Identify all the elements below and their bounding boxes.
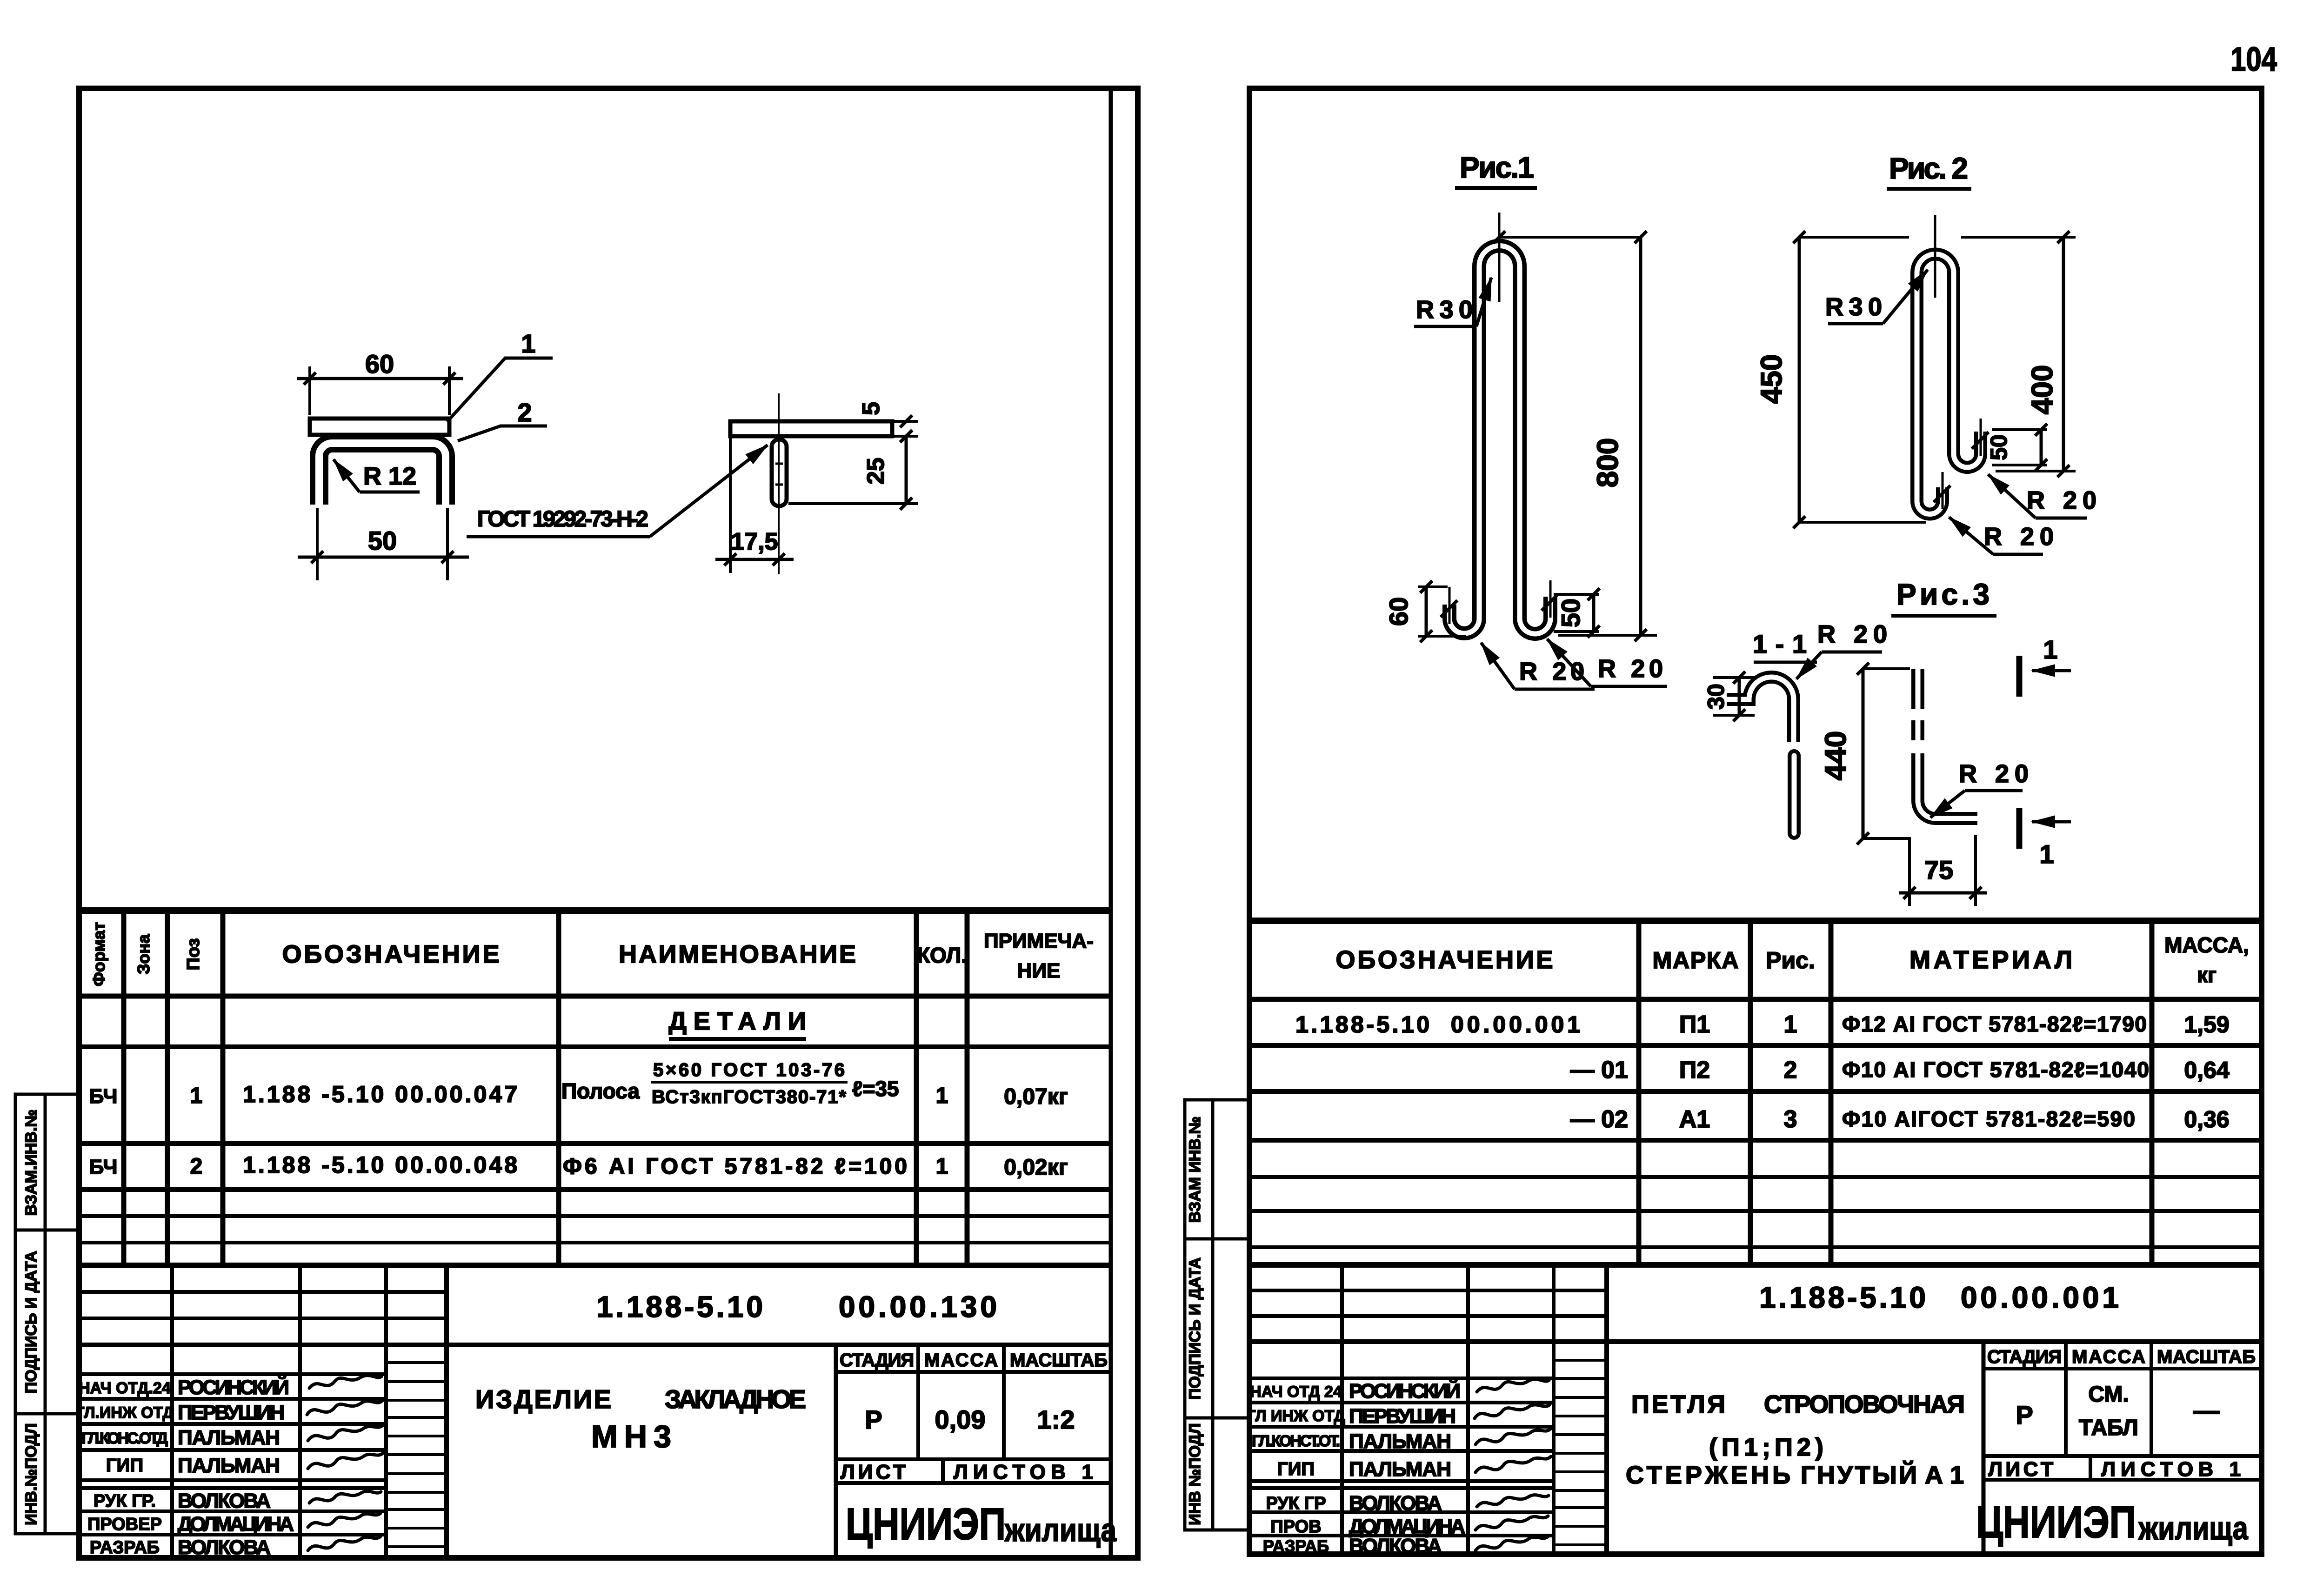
svg-text:МАССА,: МАССА, [2164,933,2249,957]
svg-text:ПОДПИСЬ И ДАТА: ПОДПИСЬ И ДАТА [1186,1257,1204,1400]
fig3 section view rod lower segment [1788,756,1801,833]
svg-text:17,5: 17,5 [731,528,778,555]
svg-text:75: 75 [1924,855,1953,884]
svg-text:0,36: 0,36 [2184,1106,2229,1132]
right title block grid [1249,1265,2262,1554]
right spec table grid [1249,921,2262,1265]
left title block grid [79,1265,1111,1558]
svg-text:РАЗРАБ: РАЗРАБ [90,1538,160,1557]
svg-text:450: 450 [1755,354,1788,404]
fig3 section mark top [2019,635,2071,697]
svg-text:0,02кг: 0,02кг [1004,1155,1068,1180]
svg-text:2: 2 [517,398,532,427]
svg-text:ДОЛМАЦИНА: ДОЛМАЦИНА [178,1513,294,1536]
right sheet side strip box [1185,1100,1249,1530]
svg-text:МАССА: МАССА [924,1350,998,1370]
svg-text:МАРКА: МАРКА [1653,947,1739,973]
svg-text:Р: Р [865,1405,882,1434]
svg-text:Ф12 АI ГОСТ 5781-82ℓ=1790: Ф12 АI ГОСТ 5781-82ℓ=1790 [1842,1012,2147,1036]
svg-text:50: 50 [1986,434,2012,460]
svg-text:ℓ=35: ℓ=35 [852,1077,899,1101]
svg-text:60: 60 [1384,597,1413,626]
MN3 side view plate [730,421,892,436]
fig1 left foot end tick [1441,587,1457,624]
svg-text:П1: П1 [1679,1011,1710,1038]
left sheet outer frame [79,88,1138,1558]
svg-text:ЦНИИЭП: ЦНИИЭП [1976,1497,2136,1547]
svg-text:50: 50 [1556,598,1585,627]
left spec table grid [79,911,1111,1265]
fig1 dimension 800 [1558,231,1657,641]
svg-text:1:2: 1:2 [1037,1405,1075,1434]
right title name Стержень гнутый А1 [1626,1461,1964,1489]
fig2 dimension 400 [1961,231,2076,477]
svg-text:кг: кг [2197,963,2217,987]
svg-text:1: 1 [936,1154,948,1179]
right table header Масса кг [2164,933,2249,987]
svg-text:—: — [2193,1396,2219,1425]
left sheet inner right border line [1109,88,1113,1558]
svg-text:ПАЛЬМАН: ПАЛЬМАН [1349,1458,1451,1481]
fig3 label R20 hook [1796,620,1887,679]
svg-text:НАИМЕНОВАНИЕ: НАИМЕНОВАНИЕ [619,940,856,968]
svg-text:КОЛ.: КОЛ. [917,943,967,967]
svg-text:ВОЛКОВА: ВОЛКОВА [1349,1492,1442,1515]
svg-text:РУК ГР.: РУК ГР. [93,1491,156,1511]
right title mass СМ.ТАБЛ [2079,1382,2138,1440]
fig2 loop top centerline tick [1934,215,1936,298]
svg-text:ГЛ.КОНС.ОТД: ГЛ.КОНС.ОТД [81,1430,168,1447]
fig2 dimension 50 hook [1992,424,2047,471]
svg-text:ПЕРВУШИН: ПЕРВУШИН [1349,1405,1456,1428]
svg-text:ВЗАМ.ИНВ.№: ВЗАМ.ИНВ.№ [22,1110,40,1216]
svg-text:РУК ГР: РУК ГР [1266,1494,1326,1513]
svg-text:1.188 -5.10 00.00.047: 1.188 -5.10 00.00.047 [243,1081,517,1107]
left sheet side strip box [15,1094,79,1534]
svg-text:ОБОЗНАЧЕНИЕ: ОБОЗНАЧЕНИЕ [1336,946,1553,974]
svg-text:СТЕРЖЕНЬ: СТЕРЖЕНЬ [1626,1461,1790,1489]
label ГОСТ 19292-73-Н-2 [467,445,768,537]
svg-text:П2: П2 [1679,1057,1710,1084]
fig1 label R20 right [1547,639,1667,686]
svg-text:ПОДПИСЬ И ДАТА: ПОДПИСЬ И ДАТА [22,1251,40,1393]
svg-text:ЦНИИЭП: ЦНИИЭП [846,1499,1006,1549]
svg-text:400: 400 [2025,365,2059,415]
svg-text:ЗАКЛАДНОЕ: ЗАКЛАДНОЕ [665,1384,806,1414]
svg-text:МАСШТАБ: МАСШТАБ [2157,1347,2256,1367]
svg-text:ПЕТЛЯ: ПЕТЛЯ [1631,1390,1725,1418]
svg-text:1.188-5.10: 1.188-5.10 [596,1290,763,1323]
fig1 label R20 left [1481,643,1595,689]
svg-text:0,07кг: 0,07кг [1004,1084,1068,1109]
leader 1 plate [447,358,553,422]
svg-text:СТАДИЯ: СТАДИЯ [840,1350,914,1370]
svg-text:НАЧ ОТД.24: НАЧ ОТД.24 [79,1379,171,1397]
svg-text:СМ.: СМ. [2088,1382,2129,1407]
svg-text:ПАЛЬМАН: ПАЛЬМАН [1349,1430,1451,1453]
svg-text:ВЗАМ ИНВ.№: ВЗАМ ИНВ.№ [1186,1117,1204,1223]
fig3 elevation rod middle segment [1911,720,1924,740]
svg-text:ГНУТЫЙ: ГНУТЫЙ [1801,1461,1917,1489]
svg-text:0,64: 0,64 [2184,1057,2230,1083]
svg-text:НАЧ ОТД 24: НАЧ ОТД 24 [1250,1383,1342,1401]
svg-text:00.00.130: 00.00.130 [839,1290,997,1323]
svg-text:ЛИСТОВ 1: ЛИСТОВ 1 [954,1461,1093,1483]
fig2 label R20 right hook [1988,474,2096,518]
svg-text:МАССА: МАССА [2072,1347,2145,1367]
svg-text:Ф6 АI ГОСТ 5781-82 ℓ=100: Ф6 АI ГОСТ 5781-82 ℓ=100 [563,1154,907,1179]
svg-text:Рис. 2: Рис. 2 [1889,152,1968,185]
svg-text:Р: Р [2016,1400,2033,1430]
svg-text:1: 1 [190,1084,203,1108]
svg-text:5×60 ГОСТ 103-76: 5×60 ГОСТ 103-76 [653,1060,845,1080]
fig3 title Рис.3 [1891,578,1996,616]
fig1 title Рис.1 [1455,151,1537,188]
svg-text:(П1;П2): (П1;П2) [1709,1433,1823,1461]
svg-text:жилища: жилища [2138,1510,2249,1546]
svg-text:А1: А1 [1679,1106,1710,1133]
svg-text:0,09: 0,09 [935,1405,986,1434]
svg-text:1: 1 [2043,635,2057,664]
svg-text:25: 25 [862,458,889,485]
fig3 dimension 440 [1857,663,1910,845]
svg-text:ПРИМЕЧА-: ПРИМЕЧА- [984,930,1094,952]
svg-text:R30: R30 [1416,296,1473,324]
fig1 right foot end tick [1542,580,1558,618]
svg-text:ЛИСТОВ 1: ЛИСТОВ 1 [2101,1458,2241,1481]
fig3 section mark bottom [2019,808,2071,869]
svg-text:ВОЛКОВА: ВОЛКОВА [1349,1535,1442,1557]
fig2 right foot end tick [1972,419,1989,456]
dimension 25 rod depth [788,430,918,510]
fig2 left foot end tick [1934,472,1950,509]
svg-text:1-1: 1-1 [1753,629,1807,658]
right title name Петля строповочная [1631,1390,1965,1418]
right names column [1247,1383,1345,1556]
svg-text:— 02: — 02 [1570,1106,1628,1133]
fig3 section view hook rod [1727,677,1794,742]
svg-text:60: 60 [365,349,394,379]
fig1 dimension 50 right foot [1554,588,1600,638]
fig3 dimension 75 [1899,835,1987,906]
right row1 designation [1295,1011,1580,1037]
fig3 label R20 bend [1930,760,2029,818]
svg-text:ПАЛЬМАН: ПАЛЬМАН [178,1454,280,1477]
MN3 side view centerline [778,393,780,574]
svg-text:ПРОВЕР: ПРОВЕР [87,1515,162,1534]
fig1 loop top centerline tick [1498,213,1501,302]
fig3 dimension 30 [1713,672,1755,721]
svg-text:2: 2 [190,1154,203,1179]
svg-text:МАСШТАБ: МАСШТАБ [1010,1350,1108,1370]
svg-text:ВОЛКОВА: ВОЛКОВА [178,1490,271,1512]
svg-text:ГОСТ 19292-73-Н-2: ГОСТ 19292-73-Н-2 [477,507,648,532]
svg-text:1: 1 [1784,1011,1797,1038]
svg-text:30: 30 [1703,684,1729,710]
svg-text:ПРОВ: ПРОВ [1270,1517,1321,1536]
svg-text:1,59: 1,59 [2184,1011,2229,1037]
svg-text:Зона: Зона [134,934,153,974]
svg-text:440: 440 [1819,731,1852,781]
svg-text:ГЛ ИНЖ ОТД: ГЛ ИНЖ ОТД [1247,1407,1345,1425]
right sheet outer frame [1249,88,2262,1554]
svg-text:Ф10 АIГОСТ 5781-82ℓ=590: Ф10 АIГОСТ 5781-82ℓ=590 [1842,1107,2135,1131]
MN3 main view plate poz.1 [310,419,449,435]
svg-text:Полоса: Полоса [561,1079,640,1103]
svg-text:ГЛ.ИНЖ ОТД: ГЛ.ИНЖ ОТД [75,1404,174,1422]
dimension 17,5 rod offset [715,438,794,573]
svg-text:5: 5 [858,402,885,415]
svg-text:ГИП: ГИП [1277,1459,1315,1479]
svg-text:ОБОЗНАЧЕНИЕ: ОБОЗНАЧЕНИЕ [282,940,500,968]
svg-text:Рис.3: Рис.3 [1896,578,1990,611]
svg-text:800: 800 [1591,438,1624,488]
svg-text:жилища: жилища [1004,1512,1117,1548]
fig1 loop rod П1 [1449,246,1550,634]
fig3 elevation rod upper segment [1911,669,1924,709]
svg-text:ТАБЛ: ТАБЛ [2079,1416,2138,1440]
svg-text:НИЕ: НИЕ [1017,959,1061,982]
svg-text:— 01: — 01 [1570,1057,1628,1084]
svg-text:РАЗРАБ: РАЗРАБ [1263,1536,1329,1556]
svg-text:104: 104 [2230,41,2277,78]
MN3 main view bent rod poz.2 [319,443,446,505]
left signatures [307,1376,383,1550]
svg-text:Формат: Формат [89,922,108,986]
svg-text:3: 3 [1784,1106,1797,1133]
dimension 60 plate width [297,366,463,415]
svg-text:ИНВ.№ПОДЛ: ИНВ.№ПОДЛ [22,1423,40,1525]
svg-text:БЧ: БЧ [89,1156,118,1178]
MN3 side view rod end [772,439,787,506]
fig3 elevation rod bend and horizontal leg [1918,753,1977,818]
fig1 top dimension line [1493,231,1641,243]
svg-text:2: 2 [1784,1057,1797,1084]
fig2 bent rod П2 [1917,254,1981,514]
svg-text:ИНВ №ПОДЛ: ИНВ №ПОДЛ [1186,1423,1204,1525]
left names column [75,1379,174,1557]
left table row1 name Полоса fraction [561,1060,899,1107]
svg-text:СТРОПОВОЧНАЯ: СТРОПОВОЧНАЯ [1764,1390,1965,1418]
svg-text:1.188 -5.10 00.00.048: 1.188 -5.10 00.00.048 [243,1152,517,1178]
fig1 dimension 60 left foot [1418,581,1466,642]
svg-text:Рис.: Рис. [1766,947,1815,973]
svg-text:ИЗДЕЛИЕ: ИЗДЕЛИЕ [475,1384,611,1414]
svg-text:РОСИНСКИЙ: РОСИНСКИЙ [178,1375,289,1399]
svg-text:1: 1 [521,329,535,358]
fig1 label R30 [1414,278,1491,326]
leader 2 rod [458,426,547,441]
fig2 dimension 450 [1793,231,1926,528]
fig2 label R20 left foot [1949,517,2054,554]
svg-text:00.00.001: 00.00.001 [1451,1011,1580,1037]
svg-text:СТАДИЯ: СТАДИЯ [1987,1347,2062,1367]
svg-text:00.00.001: 00.00.001 [1961,1281,2119,1314]
label R12 [334,459,420,492]
svg-text:МН3: МН3 [591,1419,671,1454]
right signatures [1475,1379,1551,1550]
svg-text:R 12: R 12 [363,462,416,490]
svg-text:БЧ: БЧ [89,1085,118,1108]
svg-text:Рис.1: Рис.1 [1460,151,1534,184]
svg-text:Поз: Поз [184,938,203,971]
svg-text:Ф10 АI ГОСТ 5781-82ℓ=1040: Ф10 АI ГОСТ 5781-82ℓ=1040 [1842,1057,2149,1082]
svg-text:ПАЛЬМАН: ПАЛЬМАН [178,1426,280,1449]
left table header Примечание [984,930,1094,982]
svg-text:1: 1 [936,1084,948,1108]
svg-text:R30: R30 [1825,293,1882,321]
dimension 50 leg span [298,508,469,580]
left table row ДЕТАЛИ [669,1007,807,1039]
svg-text:50: 50 [368,526,397,555]
svg-text:1.188-5.10: 1.188-5.10 [1295,1011,1429,1037]
svg-text:ВОЛКОВА: ВОЛКОВА [178,1536,271,1559]
svg-text:РОСИНСКИЙ: РОСИНСКИЙ [1349,1379,1461,1403]
svg-text:ГЛ.КОНСТ.ОТ.: ГЛ.КОНСТ.ОТ. [1252,1432,1340,1450]
fig2 title Рис.2 [1887,152,1971,189]
svg-text:1.188-5.10: 1.188-5.10 [1759,1281,1926,1314]
fig3 label 1-1 [1753,629,1817,662]
dimension 5 plate thickness [894,415,918,442]
svg-text:1: 1 [2039,839,2054,869]
fig2 label R30 [1825,270,1928,324]
svg-text:ПЕРВУШИН: ПЕРВУШИН [178,1401,285,1424]
svg-text:ГИП: ГИП [106,1455,143,1476]
